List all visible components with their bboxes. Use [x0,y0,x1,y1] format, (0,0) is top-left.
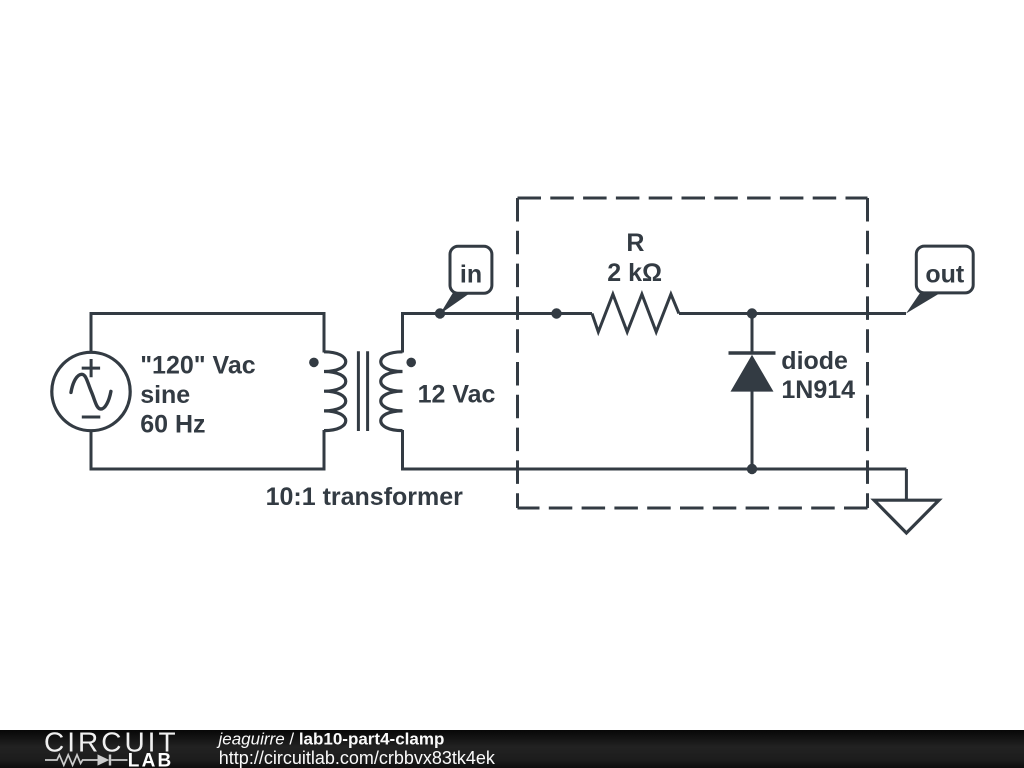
svg-text:LAB: LAB [128,750,174,768]
wire V1 bottom lead [90,431,93,470]
wire bottom secondary to ground [401,468,906,471]
dashed box clamp subcircuit [518,198,868,508]
voltage source V1 [52,352,130,430]
wire ground lead [905,469,908,500]
transformer T1 primary phase dot [309,358,319,368]
wire V1 top lead [90,314,93,353]
flag out [906,246,973,313]
transformer T1 core [358,351,367,431]
wire top of source loop [90,312,326,315]
node junction diode top [747,308,757,318]
CircuitLab logo circuit line with resistor and diode [45,755,128,766]
svg-text:12 Vac: 12 Vac [418,380,496,408]
wire diode top lead [751,314,754,354]
wire resistor R to diode node [679,312,752,315]
svg-text:R: R [626,229,644,257]
svg-text:in: in [460,260,482,288]
label V1 value "120" Vac sine 60 Hz [140,352,256,439]
svg-text:60 Hz: 60 Hz [140,411,205,439]
wire bottom of source loop [90,468,326,471]
svg-text:diode: diode [781,347,848,375]
wire node in to node R [440,312,557,315]
transformer T1 secondary winding [381,352,403,431]
node junction before resistor [551,308,561,318]
wire secondary top to node in [401,312,440,315]
wire primary bottom lead [323,430,326,469]
node junction diode bottom [747,464,757,474]
wire diode node to out flag [752,312,906,315]
wire secondary top lead [401,314,404,353]
wire node R to resistor R [557,312,593,315]
transformer T1 secondary phase dot [406,358,416,368]
watermark bar [0,730,1024,768]
svg-text:1N914: 1N914 [781,376,855,404]
wire primary top lead [323,314,326,353]
transformer T1 primary winding [324,352,346,431]
svg-text:jeaguirre / lab10-part4-clamp: jeaguirre / lab10-part4-clamp [217,729,445,748]
svg-text:"120" Vac: "120" Vac [140,352,256,380]
CircuitLab logo diode triangle [98,754,110,765]
wire diode bottom lead [751,392,754,470]
diode D1 [729,353,776,392]
node junction at in [435,308,445,318]
resistor R [592,294,679,332]
ground symbol [874,500,939,533]
svg-text:10:1 transformer: 10:1 transformer [266,483,464,511]
svg-text:out: out [925,260,965,288]
svg-text:http://circuitlab.com/crbbvx83: http://circuitlab.com/crbbvx83tk4ek [219,748,496,768]
svg-text:2 kΩ: 2 kΩ [607,259,662,287]
wire secondary bottom lead [401,430,404,469]
flag in [440,246,492,314]
svg-text:sine: sine [140,381,190,409]
